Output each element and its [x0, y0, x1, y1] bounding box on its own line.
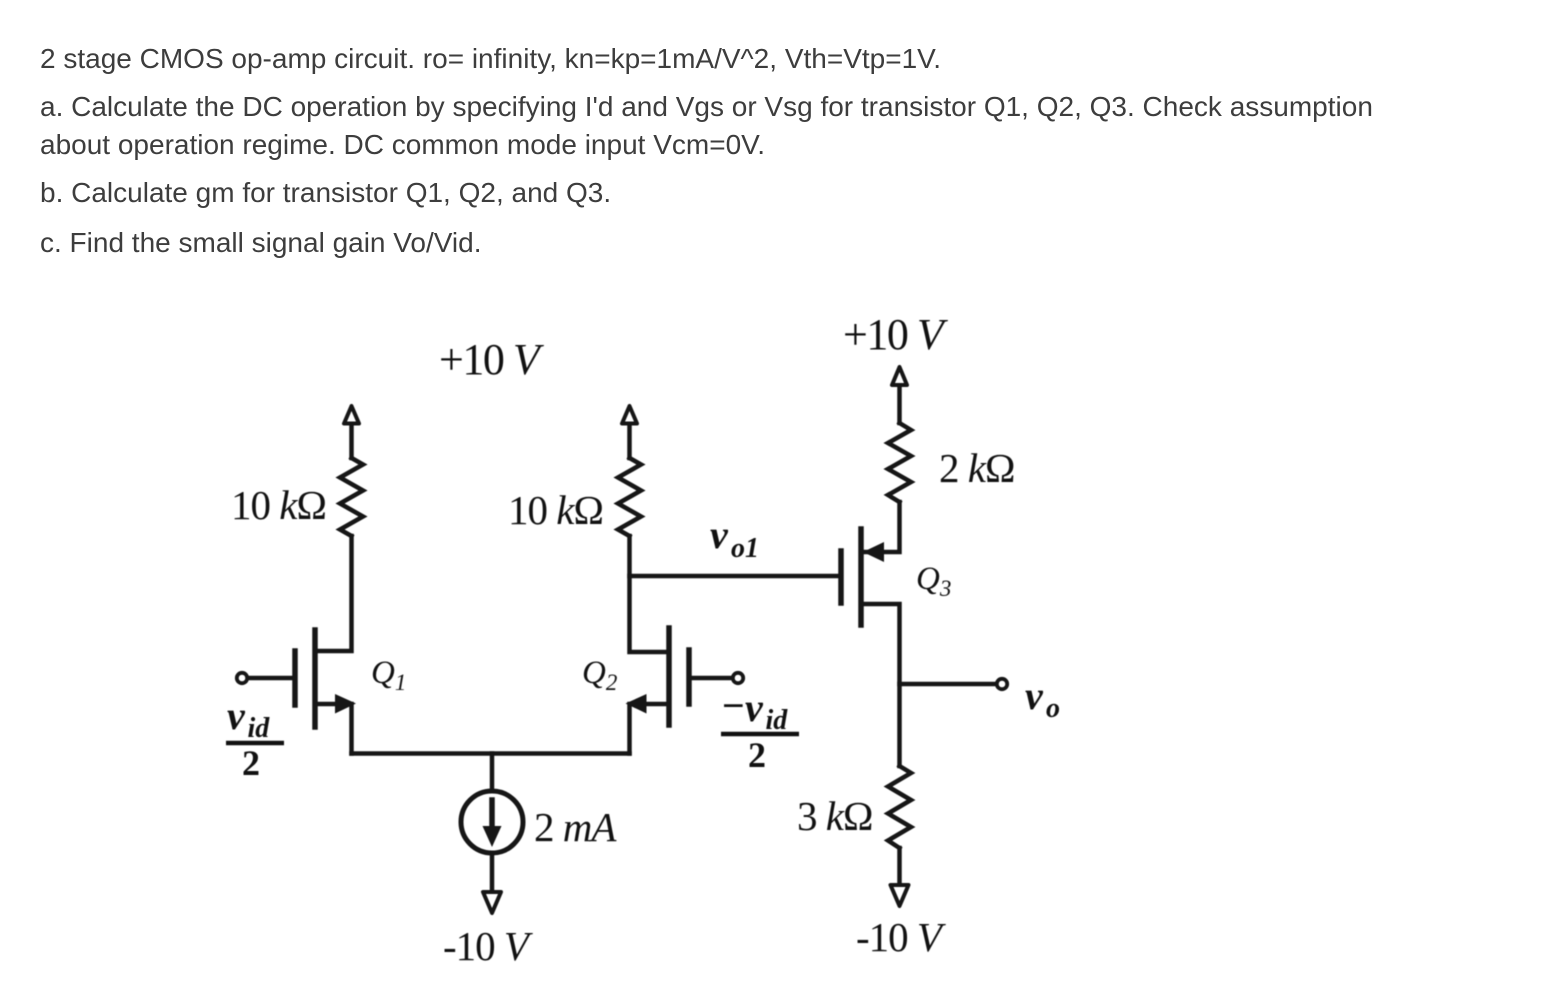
- svg-text:id: id: [766, 705, 789, 736]
- supply arrow +10V middle branch: [622, 406, 637, 458]
- svg-text:+10 V: +10 V: [439, 335, 545, 384]
- svg-text:v: v: [745, 685, 764, 730]
- svg-text:2: 2: [748, 735, 766, 775]
- svg-text:10 kΩ: 10 kΩ: [231, 482, 326, 528]
- label vid/2 fraction: [226, 693, 284, 783]
- svg-text:-10 V: -10 V: [856, 914, 946, 960]
- svg-text:v: v: [227, 693, 246, 738]
- input terminal vid/2: [237, 673, 247, 683]
- input terminal -vid/2: [733, 673, 743, 683]
- label vo: [1025, 673, 1060, 724]
- svg-text:−: −: [722, 683, 745, 728]
- svg-text:3 kΩ: 3 kΩ: [797, 793, 872, 839]
- bottom common source wire: [352, 751, 630, 756]
- svg-text:o: o: [1046, 693, 1060, 724]
- svg-text:-10 V: -10 V: [443, 923, 533, 969]
- svg-text:Q2: Q2: [582, 655, 617, 695]
- svg-text:2 mA: 2 mA: [534, 804, 617, 850]
- wire: R2 bottom to Q2 drain: [630, 536, 670, 652]
- question b: [40, 179, 611, 207]
- supply arrow +10V left branch: [344, 406, 359, 458]
- problem statement title: [40, 45, 941, 73]
- label -vid/2 fraction: [721, 683, 799, 775]
- question c: [40, 229, 482, 257]
- svg-text:v: v: [710, 512, 729, 557]
- wire: node vo1 to Q3 gate: [630, 574, 842, 579]
- svg-text:Q3: Q3: [916, 561, 951, 601]
- transistor Q3 (PMOS): [841, 529, 900, 766]
- wire: R3 to Q3 source: [861, 502, 900, 552]
- resistor R2 10 kOhm middle: [618, 458, 641, 536]
- svg-text:+10 V: +10 V: [843, 310, 949, 359]
- current source I1 2 mA: [461, 791, 523, 853]
- svg-text:2 kΩ: 2 kΩ: [939, 445, 1014, 491]
- svg-text:2: 2: [242, 743, 260, 783]
- arrow to -10V left: [483, 892, 501, 913]
- wire: tail node to current source: [490, 754, 495, 792]
- wire: current source to -10V: [490, 853, 495, 893]
- svg-text:Q1: Q1: [371, 655, 406, 695]
- svg-text:id: id: [248, 713, 271, 744]
- wire: R4 to -10V: [897, 848, 902, 886]
- arrow to -10V right: [891, 885, 909, 906]
- svg-text:v: v: [1025, 673, 1044, 718]
- resistor R4 3 kOhm: [888, 766, 911, 848]
- label vo1: [710, 512, 759, 564]
- question a: [40, 88, 1373, 164]
- supply arrow +10V right branch: [892, 367, 907, 423]
- transistor Q1: [248, 630, 356, 754]
- wire: R1 bottom to Q1 drain: [315, 536, 352, 651]
- output terminal vo: [997, 679, 1007, 689]
- svg-text:o1: o1: [731, 533, 759, 564]
- resistor R3 2 kOhm: [888, 423, 911, 502]
- transistor Q2: [626, 628, 733, 754]
- resistor R1 10 kOhm left: [340, 458, 363, 536]
- wire: drain node to vo terminal: [900, 682, 997, 687]
- svg-text:10 kΩ: 10 kΩ: [508, 487, 603, 533]
